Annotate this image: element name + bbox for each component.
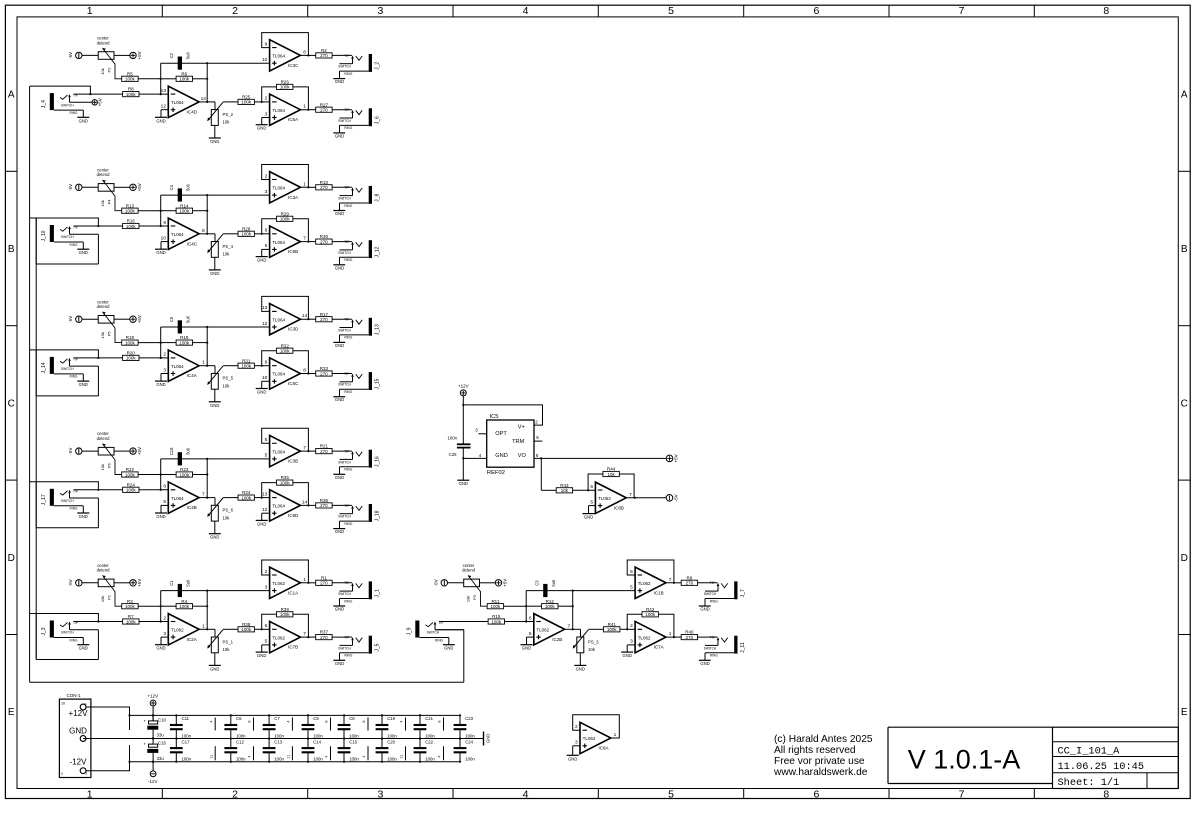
svg-text:12: 12 [161, 104, 167, 110]
capacitor C8 100n [338, 714, 360, 739]
svg-text:IC4A: IC4A [187, 373, 197, 378]
svg-text:GND: GND [210, 666, 219, 671]
svg-text:RING: RING [70, 375, 78, 379]
capacitor C21 100n [414, 714, 436, 739]
svg-text:10k: 10k [561, 488, 569, 493]
svg-text:7: 7 [959, 5, 965, 17]
svg-text:11: 11 [287, 755, 291, 759]
svg-text:1: 1 [614, 732, 617, 738]
svg-text:33u: 33u [157, 756, 165, 761]
svg-text:8: 8 [202, 228, 205, 234]
svg-text:detend: detend [462, 568, 475, 573]
svg-text:TL062: TL062 [272, 635, 285, 640]
svg-text:GND: GND [257, 390, 266, 395]
trimmer PS_1 10k [208, 629, 238, 671]
svg-text:8: 8 [303, 49, 306, 55]
svg-text:TL064: TL064 [272, 449, 285, 454]
power pin 11 stub [287, 746, 293, 760]
svg-text:2: 2 [265, 96, 268, 102]
svg-text:5u6: 5u6 [185, 579, 190, 587]
+12V supply symbol [147, 693, 158, 721]
svg-text:J_10: J_10 [41, 230, 47, 241]
op-amp IC6A TL064 [255, 87, 310, 131]
svg-text:1: 1 [202, 360, 205, 366]
svg-text:TL064: TL064 [272, 108, 285, 113]
svg-text:GND: GND [156, 646, 165, 651]
svg-text:270: 270 [320, 108, 328, 113]
svg-text:C18: C18 [169, 447, 174, 455]
svg-text:7: 7 [567, 623, 570, 629]
svg-text:TIP: TIP [710, 581, 715, 585]
svg-text:6: 6 [813, 5, 819, 17]
svg-text:-12V: -12V [148, 779, 158, 784]
svg-text:J_16: J_16 [375, 456, 381, 467]
svg-text:13: 13 [161, 88, 167, 94]
svg-text:IC8B: IC8B [614, 505, 624, 510]
svg-text:TIP: TIP [344, 504, 349, 508]
svg-text:TL062: TL062 [598, 496, 611, 501]
svg-text:RING: RING [344, 336, 352, 340]
resistor R15 100k [488, 614, 534, 624]
svg-text:P3: P3 [472, 594, 477, 600]
svg-text:100n: 100n [465, 756, 475, 761]
svg-text:C6: C6 [236, 716, 242, 721]
capacitor C6 100n [224, 714, 246, 739]
svg-text:RING: RING [710, 654, 718, 658]
svg-text:SWITCH: SWITCH [704, 592, 717, 596]
wire -12V rail [130, 761, 461, 763]
power pin 4 stub [287, 718, 293, 731]
svg-text:GND: GND [335, 607, 344, 612]
input jack J_14 [41, 357, 123, 387]
power pin 4 stub [325, 746, 331, 760]
svg-text:270: 270 [320, 53, 328, 58]
capacitor C18 5u6 [161, 447, 208, 466]
capacitor C20 100n [376, 739, 398, 763]
svg-text:TIP: TIP [344, 108, 349, 112]
svg-text:1: 1 [87, 788, 93, 800]
capacitor C16 33u [143, 737, 166, 762]
svg-text:1: 1 [669, 631, 672, 637]
resistor R36 270 [308, 498, 352, 508]
capacitor C7 100n [263, 714, 285, 739]
wire node column [160, 327, 162, 359]
svg-text:100k: 100k [179, 209, 190, 214]
svg-text:RING: RING [344, 390, 352, 394]
op-amp IC6B TL064 [255, 219, 310, 263]
op-amp IC4A TL064 [155, 350, 215, 387]
+12V supply symbol [458, 383, 469, 396]
svg-text:-5V: -5V [68, 316, 73, 323]
svg-text:4: 4 [479, 453, 482, 458]
wire jack normal box [30, 614, 99, 660]
svg-text:6: 6 [536, 453, 539, 458]
wire node column [206, 62, 208, 103]
svg-text:100k: 100k [125, 472, 136, 477]
svg-text:4: 4 [325, 756, 329, 758]
svg-text:4: 4 [287, 721, 291, 723]
svg-text:SWITCH: SWITCH [338, 646, 351, 650]
svg-text:IC4C: IC4C [187, 241, 198, 246]
power pin 8 stub [362, 718, 368, 731]
wire +12V rail [130, 714, 461, 716]
svg-text:RING: RING [344, 599, 352, 603]
svg-text:GND: GND [486, 734, 491, 743]
svg-text:J_6: J_6 [375, 116, 381, 124]
svg-text:10k: 10k [607, 472, 615, 477]
resistor R26 100k [277, 80, 293, 90]
input jack J_10 [41, 225, 123, 255]
svg-text:C23: C23 [465, 716, 473, 721]
svg-text:C: C [8, 399, 15, 410]
svg-text:GND: GND [522, 646, 531, 651]
svg-text:SWITCH: SWITCH [338, 119, 351, 123]
svg-text:100n: 100n [313, 733, 323, 738]
svg-text:270: 270 [320, 185, 328, 190]
svg-text:GND: GND [79, 118, 88, 123]
svg-text:Free vor private use: Free vor private use [774, 756, 865, 767]
svg-text:2: 2 [163, 352, 166, 358]
svg-text:Sheet: 1/1: Sheet: 1/1 [1058, 777, 1120, 789]
svg-text:6: 6 [529, 615, 532, 621]
svg-text:100k: 100k [491, 604, 502, 609]
capacitor C13 100n [263, 739, 285, 763]
svg-text:9: 9 [163, 220, 166, 226]
svg-text:A: A [1181, 90, 1188, 101]
wire node column [206, 194, 208, 235]
op-amp IC6C TL064 [255, 351, 310, 395]
svg-text:TL064: TL064 [171, 100, 184, 105]
output jack J_7 [699, 581, 746, 611]
svg-text:10k: 10k [100, 68, 105, 74]
svg-text:+5V: +5V [137, 579, 142, 587]
resistor R14 100k [161, 203, 208, 213]
svg-text:SWITCH: SWITCH [338, 65, 351, 69]
op-amp IC2B TL062 [521, 614, 581, 651]
svg-text:5: 5 [630, 584, 633, 590]
svg-text:RING: RING [344, 204, 352, 208]
svg-text:270: 270 [320, 581, 328, 586]
op-amp IC1B TL062 [573, 560, 675, 599]
svg-text:J_12: J_12 [375, 246, 381, 257]
svg-text:-5V: -5V [68, 184, 73, 191]
svg-text:10k: 10k [100, 464, 105, 470]
svg-text:GND: GND [335, 661, 344, 666]
svg-text:100n: 100n [349, 733, 359, 738]
svg-text:B: B [1181, 244, 1188, 255]
svg-text:100n: 100n [465, 733, 475, 738]
svg-text:www.haraldswerk.de: www.haraldswerk.de [773, 767, 868, 778]
svg-text:VO: VO [518, 453, 527, 459]
svg-text:IC2B: IC2B [552, 637, 562, 642]
svg-text:RING: RING [70, 638, 78, 642]
svg-text:C14: C14 [313, 739, 321, 744]
capacitor C23 100n [454, 714, 476, 739]
-5V output symbol [666, 494, 678, 501]
svg-text:GND: GND [623, 653, 632, 658]
resistor R41 100k [604, 622, 620, 632]
resistor R30 270 [308, 234, 352, 244]
svg-text:10k: 10k [466, 596, 471, 602]
trimmer PS_4 10k [208, 234, 238, 276]
potentiometer P2 10k center detent [68, 36, 142, 79]
resistor R17 270 [308, 312, 352, 322]
svg-text:5: 5 [265, 639, 268, 645]
svg-text:PS_6: PS_6 [223, 508, 234, 513]
svg-text:270: 270 [320, 317, 328, 322]
svg-text:GND: GND [335, 79, 344, 84]
op-amp IC3B TL064 [207, 428, 309, 467]
wire node column [525, 591, 527, 623]
svg-text:+12V: +12V [147, 693, 158, 698]
svg-text:IC1A: IC1A [288, 590, 298, 595]
op-amp IC4D TL064 [155, 86, 215, 123]
svg-text:P6: P6 [107, 462, 112, 468]
resistor R4 100k [161, 599, 208, 609]
svg-text:SWITCH: SWITCH [338, 251, 351, 255]
svg-text:270: 270 [320, 449, 328, 454]
svg-text:+5V: +5V [137, 447, 142, 455]
op-amp IC2A TL062 [155, 614, 215, 651]
power pin 4 stub [248, 746, 254, 760]
svg-text:GND: GND [257, 653, 266, 658]
svg-text:100k: 100k [280, 612, 291, 617]
svg-text:P5: P5 [107, 331, 112, 337]
power pin 4 stub [209, 718, 215, 731]
svg-text:REF02: REF02 [487, 470, 505, 476]
svg-text:C2: C2 [169, 52, 174, 58]
svg-text:100k: 100k [126, 92, 137, 97]
svg-text:J_14: J_14 [41, 362, 47, 373]
resistor R23 100k [161, 467, 208, 477]
svg-text:6: 6 [265, 437, 268, 443]
svg-text:GND: GND [257, 258, 266, 263]
svg-text:GND: GND [584, 515, 593, 520]
svg-text:GND: GND [568, 756, 577, 761]
power pin 11 stub [209, 746, 215, 760]
svg-text:GND: GND [459, 481, 468, 486]
svg-text:B: B [8, 244, 15, 255]
op-amp IC3A TL064 [207, 165, 309, 204]
svg-text:+5V: +5V [674, 454, 679, 462]
svg-text:11: 11 [400, 755, 404, 759]
+5V output symbol [666, 454, 678, 462]
svg-text:270: 270 [320, 635, 328, 640]
potentiometer P3 10k center detent [433, 563, 507, 606]
svg-text:GND: GND [210, 271, 219, 276]
svg-text:C10: C10 [158, 717, 166, 722]
svg-text:IC7A: IC7A [654, 645, 664, 650]
potentiometer P6 10k center detent [68, 431, 142, 474]
svg-text:GND: GND [335, 397, 344, 402]
svg-text:C11: C11 [182, 716, 190, 721]
resistor R8 100k [123, 87, 169, 97]
resistor R28 100k [238, 226, 254, 236]
svg-text:10k: 10k [100, 200, 105, 206]
svg-text:GND: GND [156, 514, 165, 519]
svg-text:SWITCH: SWITCH [338, 197, 351, 201]
capacitor C19 100n [376, 714, 398, 739]
svg-text:TL062: TL062 [272, 581, 285, 586]
output jack J_13 [333, 318, 380, 348]
svg-text:RING: RING [344, 126, 352, 130]
power pin 8 stub [248, 718, 254, 731]
svg-text:100k: 100k [125, 209, 136, 214]
svg-text:TL064: TL064 [171, 232, 184, 237]
svg-text:IC8A: IC8A [599, 746, 609, 751]
svg-text:8: 8 [1103, 788, 1109, 800]
svg-text:100k: 100k [125, 77, 136, 82]
capacitor C9 100n [302, 714, 324, 739]
power pin 4 stub [362, 746, 368, 760]
trimmer PS_5 10k [208, 366, 238, 408]
svg-text:IC7B: IC7B [288, 645, 298, 650]
svg-text:GND: GND [335, 133, 344, 138]
svg-text:TL064: TL064 [171, 496, 184, 501]
svg-text:TIP: TIP [344, 318, 349, 322]
svg-text:SWITCH: SWITCH [338, 592, 351, 596]
svg-text:100k: 100k [126, 224, 137, 229]
resistor R32 100k [277, 343, 293, 353]
svg-text:IC6D: IC6D [288, 513, 299, 518]
input jack J_9 [407, 621, 489, 651]
svg-text:2: 2 [265, 173, 268, 179]
svg-text:SWITCH: SWITCH [427, 631, 440, 635]
svg-text:3: 3 [265, 111, 268, 117]
svg-text:10k: 10k [223, 515, 231, 520]
svg-text:100k: 100k [126, 488, 137, 493]
wire to R43 [541, 458, 556, 490]
svg-text:10k: 10k [588, 647, 596, 652]
output jack J_2 [333, 54, 380, 84]
svg-text:270: 270 [320, 503, 328, 508]
svg-text:100k: 100k [241, 100, 252, 105]
svg-text:TL064: TL064 [272, 186, 285, 191]
wire node column [206, 458, 208, 499]
resistor R18 100k [122, 335, 161, 345]
svg-text:C5: C5 [169, 316, 174, 322]
svg-text:13: 13 [262, 305, 268, 311]
svg-text:4: 4 [400, 721, 404, 723]
svg-text:5: 5 [590, 499, 593, 505]
svg-text:33u: 33u [157, 733, 165, 738]
svg-text:13: 13 [262, 491, 268, 497]
svg-text:2: 2 [163, 615, 166, 621]
wire jack normal box [30, 218, 99, 264]
capacitor C11 100n [170, 714, 192, 739]
svg-text:100k: 100k [179, 340, 190, 345]
svg-text:5u6: 5u6 [185, 183, 190, 191]
svg-text:100n: 100n [274, 733, 284, 738]
svg-text:12: 12 [262, 507, 268, 513]
svg-text:5u6: 5u6 [185, 447, 190, 455]
svg-text:+: + [143, 718, 146, 723]
op-amp IC7A TL062 [620, 614, 675, 658]
trimmer PS_3 10k [573, 629, 603, 671]
svg-text:TL064: TL064 [272, 240, 285, 245]
svg-text:C21: C21 [425, 716, 433, 721]
wire node column [206, 590, 208, 631]
svg-text:-12V: -12V [70, 757, 88, 766]
svg-text:+5V: +5V [98, 98, 103, 106]
svg-text:IC6C: IC6C [288, 381, 299, 386]
input jack J_17 [41, 489, 123, 519]
svg-text:7: 7 [303, 236, 306, 242]
svg-text:-5V: -5V [674, 494, 679, 501]
svg-text:8: 8 [1103, 5, 1109, 17]
svg-text:C22: C22 [425, 739, 433, 744]
svg-text:RING: RING [344, 468, 352, 472]
svg-text:detend: detend [97, 304, 110, 309]
ground [457, 457, 469, 486]
svg-text:14: 14 [302, 499, 308, 505]
svg-text:6: 6 [590, 484, 593, 490]
svg-text:7: 7 [669, 577, 672, 583]
svg-text:270: 270 [686, 635, 694, 640]
svg-text:100k: 100k [241, 495, 252, 500]
resistor R1 270 [308, 575, 352, 585]
svg-text:IC5: IC5 [489, 414, 498, 420]
wire R44 feedback [588, 474, 634, 498]
svg-text:100n: 100n [182, 756, 192, 761]
svg-text:270: 270 [320, 371, 328, 376]
svg-text:7: 7 [959, 788, 965, 800]
svg-text:270: 270 [686, 581, 694, 586]
resistor R20 100k [123, 351, 169, 361]
resistor R9 270 [674, 575, 718, 585]
svg-text:TRM: TRM [512, 439, 524, 445]
output jack J_16 [333, 450, 380, 480]
svg-text:270: 270 [320, 239, 328, 244]
svg-text:3: 3 [265, 584, 268, 590]
svg-text:detend: detend [97, 568, 110, 573]
svg-text:100n: 100n [425, 756, 435, 761]
svg-text:9: 9 [265, 41, 268, 47]
svg-text:TIP: TIP [344, 636, 349, 640]
svg-text:C9: C9 [313, 716, 319, 721]
resistor R16 100k [123, 219, 169, 229]
svg-text:5: 5 [668, 788, 674, 800]
resistor R42 100k [642, 607, 658, 617]
svg-text:100k: 100k [241, 232, 252, 237]
svg-text:100k: 100k [125, 340, 136, 345]
svg-text:5u6: 5u6 [551, 579, 556, 587]
output jack J_1 [333, 581, 380, 611]
svg-text:J_11: J_11 [740, 642, 746, 653]
svg-text:detend: detend [97, 436, 110, 441]
svg-text:TL064: TL064 [272, 372, 285, 377]
svg-text:RING: RING [344, 654, 352, 658]
resistor R27 270 [308, 102, 352, 112]
svg-text:IC2A: IC2A [187, 637, 197, 642]
svg-text:C12: C12 [236, 739, 244, 744]
svg-text:3: 3 [575, 740, 578, 746]
svg-text:SWITCH: SWITCH [338, 460, 351, 464]
wire node column [572, 590, 574, 631]
resistor R10 270 [308, 180, 352, 190]
svg-text:RING: RING [70, 243, 78, 247]
svg-text:GND: GND [210, 403, 219, 408]
svg-text:D: D [8, 553, 15, 564]
svg-text:100k: 100k [607, 627, 618, 632]
svg-text:All rights reserved: All rights reserved [774, 745, 856, 756]
capacitor C22 100n [414, 739, 436, 763]
svg-text:TL062: TL062 [171, 628, 184, 633]
svg-text:C20: C20 [387, 739, 395, 744]
svg-text:100n: 100n [387, 756, 397, 761]
op-amp IC8A TL062 unused [567, 715, 620, 762]
svg-text:TL064: TL064 [171, 364, 184, 369]
